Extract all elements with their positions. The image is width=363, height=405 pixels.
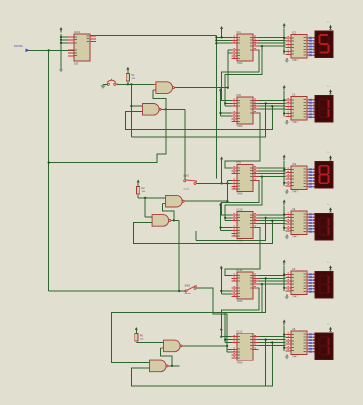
svg-text:IC13: IC13: [74, 30, 80, 34]
svg-text:IC9: IC9: [237, 161, 242, 165]
svg-text:7447: 7447: [292, 190, 298, 194]
svg-text:sw-rot: sw-rot: [185, 292, 191, 295]
svg-text:15c: 15c: [327, 323, 330, 325]
svg-text:C2: C2: [292, 92, 296, 96]
svg-text:7447: 7447: [292, 58, 298, 62]
svg-text:SW1: SW1: [183, 173, 189, 177]
svg-text:IC12: IC12: [237, 329, 243, 333]
svg-text:IC10: IC10: [237, 208, 243, 212]
svg-text:7447: 7447: [292, 120, 298, 124]
svg-text:C4: C4: [292, 207, 296, 211]
svg-text:7490: 7490: [237, 239, 243, 243]
svg-text:15c: 15c: [327, 262, 330, 264]
svg-text:C6: C6: [292, 327, 296, 331]
svg-text:7490: 7490: [237, 360, 243, 364]
svg-text:sw-rot: sw-rot: [183, 187, 189, 190]
svg-text:DSTATE: DSTATE: [14, 45, 23, 48]
svg-text:7447: 7447: [292, 355, 298, 359]
svg-text:7490: 7490: [237, 192, 243, 196]
svg-text:IC2: IC2: [292, 30, 297, 34]
svg-text:IC9: IC9: [292, 162, 297, 166]
svg-text:555: 555: [74, 62, 79, 66]
svg-text:15c: 15c: [327, 86, 330, 88]
svg-text:15c: 15c: [327, 21, 330, 23]
svg-text:7447: 7447: [292, 235, 298, 239]
svg-text:7490: 7490: [237, 124, 243, 128]
svg-text:7447: 7447: [292, 295, 298, 299]
svg-text:IC8: IC8: [237, 93, 242, 97]
svg-text:IC1: IC1: [237, 30, 242, 34]
svg-text:C3: C3: [292, 267, 296, 271]
svg-text:7490: 7490: [237, 299, 243, 303]
svg-text:7490: 7490: [237, 61, 243, 65]
svg-text:15c: 15c: [327, 152, 330, 154]
svg-text:IC11: IC11: [237, 268, 243, 272]
svg-text:SW2: SW2: [185, 284, 191, 288]
svg-text:15c: 15c: [327, 204, 330, 206]
